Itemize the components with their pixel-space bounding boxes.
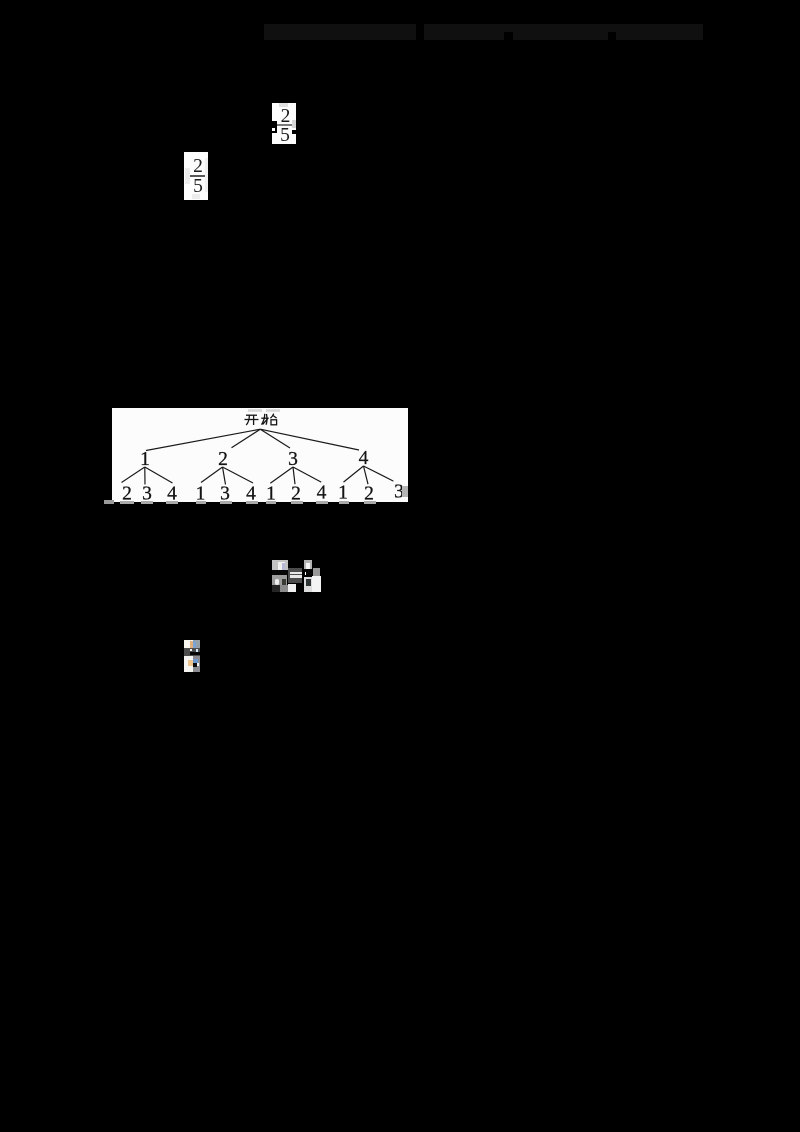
svg-text:2: 2: [122, 484, 132, 502]
svg-text:1: 1: [338, 483, 348, 502]
svg-text:2: 2: [291, 484, 301, 502]
svg-text:4: 4: [167, 484, 177, 502]
svg-text:1: 1: [140, 449, 150, 470]
svg-text:4: 4: [317, 483, 327, 502]
svg-text:4: 4: [359, 448, 369, 469]
svg-text:1: 1: [196, 484, 206, 502]
svg-text:1: 1: [266, 484, 276, 502]
svg-text:2: 2: [218, 449, 228, 470]
svg-text:3: 3: [142, 484, 152, 502]
svg-text:4: 4: [246, 484, 256, 502]
svg-text:3: 3: [288, 449, 298, 470]
svg-text:2: 2: [364, 484, 374, 502]
svg-text:3: 3: [220, 484, 230, 502]
